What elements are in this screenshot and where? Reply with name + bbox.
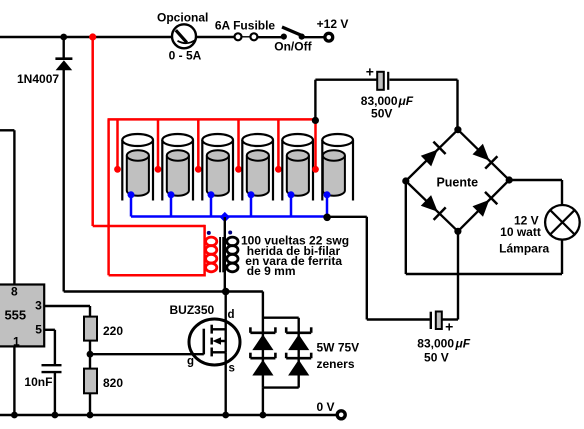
ammeter M1 Opcional 0-5A <box>172 24 196 48</box>
wire red primary vertical at winding <box>203 225 206 277</box>
node blue bus to secondary tap <box>220 212 230 222</box>
wire gate node to R2 <box>89 354 91 368</box>
wire fuse to switch <box>258 36 281 38</box>
node blue - lead C3 <box>208 191 215 198</box>
capacitor C2 outer can <box>162 134 193 201</box>
svg-text:820: 820 <box>103 376 123 390</box>
wire red primary bottom return <box>109 119 205 275</box>
node bridge right <box>506 176 513 183</box>
node bridge top <box>454 126 461 133</box>
svg-text:0 V: 0 V <box>316 400 334 414</box>
node bridge left <box>402 177 409 184</box>
node zener at 0V <box>260 412 267 419</box>
wire zener column2 top <box>263 318 299 388</box>
capacitor C4 inner can <box>247 150 269 195</box>
wire zeners to 0V <box>262 388 264 415</box>
node red primary tap <box>89 33 96 40</box>
wire bridge edge top-left <box>406 130 458 181</box>
svg-text:10 watt: 10 watt <box>500 225 541 239</box>
node source at 0V <box>222 412 229 419</box>
node blue - lead C5 <box>288 191 295 198</box>
svg-text:On/Off: On/Off <box>274 40 312 54</box>
wire top cap left lead <box>315 80 377 121</box>
wire bottom cap to bridge bottom <box>443 231 459 319</box>
node bridge bottom <box>454 228 461 235</box>
wire drain node to MOSFET <box>224 292 226 330</box>
wire +12V rail left segment <box>0 36 172 38</box>
wire pin1 to 0V <box>13 346 15 415</box>
svg-text:0 - 5A: 0 - 5A <box>169 49 202 63</box>
terminal +12V <box>325 33 333 41</box>
svg-text:50V: 50V <box>371 107 392 121</box>
svg-text:μF: μF <box>398 94 414 108</box>
wire red drop to capacitor C4 <box>237 119 240 168</box>
wire blue drop C4 <box>250 195 253 217</box>
zener D4 <box>286 327 311 350</box>
wire 555 pin8 supply <box>0 130 14 285</box>
wire red primary top from +12 node <box>93 37 205 226</box>
node red + lead C2 <box>155 166 162 173</box>
capacitor C5 outer can <box>282 134 313 201</box>
capacitor C3 inner can <box>207 150 229 195</box>
wire blue drop C3 <box>210 195 213 217</box>
wire top cap right lead <box>390 80 458 130</box>
wire blue drop C6 <box>326 195 329 217</box>
svg-text:+: + <box>366 64 374 80</box>
svg-text:83,000: 83,000 <box>417 337 454 351</box>
transistor Q1 BUZ350 <box>189 319 240 365</box>
diode bridge D6 (left to top) <box>421 142 446 167</box>
zener D3 <box>250 353 275 376</box>
junction node diode tap <box>60 34 67 41</box>
terminal 0V <box>337 411 345 419</box>
svg-text:3: 3 <box>35 298 42 312</box>
svg-text:1N4007: 1N4007 <box>17 72 59 86</box>
wire ammeter to fuse <box>196 36 234 38</box>
wire blue bus end to bottom cap <box>327 217 430 320</box>
svg-text:1: 1 <box>13 334 20 348</box>
switch S1 On/Off <box>281 27 305 40</box>
svg-text:d: d <box>228 309 235 321</box>
wire bridge right to lamp top <box>509 180 562 205</box>
wire red drop to capacitor C1 <box>116 119 119 168</box>
node blue - lead C1 <box>128 191 135 198</box>
node drain junction <box>222 288 230 296</box>
IC U1 555 timer <box>0 285 44 347</box>
wire blue drop C1 <box>130 195 133 217</box>
capacitor C6 inner can <box>323 150 345 195</box>
node red + lead C5 <box>275 166 282 173</box>
svg-text:220: 220 <box>103 324 123 338</box>
node blue - lead C6 <box>324 191 331 198</box>
svg-text:zeners: zeners <box>317 357 355 371</box>
node blue - lead C4 <box>248 191 255 198</box>
capacitor C1 outer can <box>122 134 153 201</box>
zener D2 <box>250 327 275 350</box>
svg-text:Opcional: Opcional <box>157 11 208 25</box>
wire 0V rail <box>0 414 336 417</box>
resistor R1 220 <box>84 317 97 341</box>
svg-text:de 9 mm: de 9 mm <box>247 264 296 278</box>
node red + lead C6 <box>312 166 319 173</box>
inductor T1 secondary winding (black) <box>227 237 238 272</box>
resistor R2 820 <box>84 369 97 394</box>
wire bridge edge bottom-left <box>406 181 458 231</box>
wire red drop to capacitor C2 <box>157 119 160 168</box>
zener D5 <box>286 353 311 376</box>
inductor T1 primary winding (red) <box>206 237 217 272</box>
capacitor C3 outer can <box>202 134 233 201</box>
capacitor C8 83000uF plates <box>431 312 442 330</box>
capacitor C7 83000uF plates <box>377 72 388 90</box>
node red + lead C4 <box>235 166 242 173</box>
svg-text:8: 8 <box>11 285 18 299</box>
svg-text:+12 V: +12 V <box>317 17 349 31</box>
wire zener bottom bus <box>263 386 299 388</box>
svg-text:μF: μF <box>455 337 471 351</box>
wire bridge edge top-right <box>458 130 509 180</box>
svg-text:5: 5 <box>35 323 42 337</box>
svg-text:10nF: 10nF <box>24 375 52 389</box>
svg-text:s: s <box>229 362 235 374</box>
capacitor C6 outer can <box>322 134 353 201</box>
wire C9 to 0V <box>54 372 56 415</box>
capacitor C1 inner can <box>127 150 149 195</box>
wire secondary top to drain node <box>224 217 226 291</box>
capacitor C2 inner can <box>167 150 189 195</box>
svg-text:555: 555 <box>4 308 26 323</box>
wire blue negative bus <box>131 215 327 218</box>
svg-text:BUZ350: BUZ350 <box>170 303 215 317</box>
node R2 at 0V <box>87 412 94 419</box>
node red + lead C1 <box>114 166 121 173</box>
wire drain rail horizontal <box>64 290 226 292</box>
diode D1 1N4007 <box>55 59 72 70</box>
wire red positive bus of capacitor bank <box>108 118 318 121</box>
wire lamp bottom to bridge left <box>406 181 562 274</box>
wire bridge edge bottom-right <box>458 180 509 231</box>
capacitor C9 10nF <box>42 365 62 372</box>
phase dot primary <box>207 231 211 235</box>
svg-text:Lámpara: Lámpara <box>499 241 549 255</box>
svg-text:Puente: Puente <box>436 176 478 190</box>
node blue - lead C2 <box>168 191 175 198</box>
wire red drop to capacitor C6 <box>314 122 317 169</box>
wire diode to drain node <box>63 70 65 292</box>
wire pin3 to R1 <box>44 306 90 317</box>
wire R1 to gate node <box>89 341 91 355</box>
phase dot secondary <box>228 231 232 235</box>
wire R2 to 0V <box>89 393 91 415</box>
node C9 at 0V <box>52 412 59 419</box>
diode bridge D8 (left to bottom) <box>421 195 446 220</box>
wire blue drop C2 <box>170 195 173 217</box>
wire red drop to capacitor C5 <box>277 119 280 168</box>
lamp LP1 12V 10 watt <box>545 205 580 240</box>
wire switch to +12V terminal <box>304 36 325 38</box>
node blue bus / black wire junction <box>323 214 331 222</box>
diode bridge D9 (bottom to right) <box>473 192 498 217</box>
svg-text:50 V: 50 V <box>424 351 449 365</box>
svg-text:6A Fusible: 6A Fusible <box>215 19 276 33</box>
capacitor C5 inner can <box>287 150 309 195</box>
svg-text:+: + <box>445 319 453 335</box>
svg-text:g: g <box>187 355 194 367</box>
fuse F1 6A <box>235 33 258 40</box>
diode bridge D7 (top to right) <box>473 144 498 169</box>
node gate divider <box>87 351 94 358</box>
wire drain node to zener column1 <box>226 292 263 388</box>
wire red drop to capacitor C3 <box>197 119 200 168</box>
wire gate node to MOSFET gate <box>90 353 204 355</box>
node pin1 at 0V <box>11 412 18 419</box>
wire node to diode D1 <box>63 37 65 59</box>
wire MOSFET source to 0V <box>224 352 226 415</box>
capacitor C4 outer can <box>242 134 273 201</box>
transformer core ferrite bars <box>220 237 223 272</box>
wire pin5 to C9 <box>44 330 55 365</box>
node red + lead C3 <box>195 166 202 173</box>
node red bus / top cap junction <box>312 117 319 124</box>
svg-text:5W 75V: 5W 75V <box>317 341 360 355</box>
wire blue drop C5 <box>290 195 293 217</box>
